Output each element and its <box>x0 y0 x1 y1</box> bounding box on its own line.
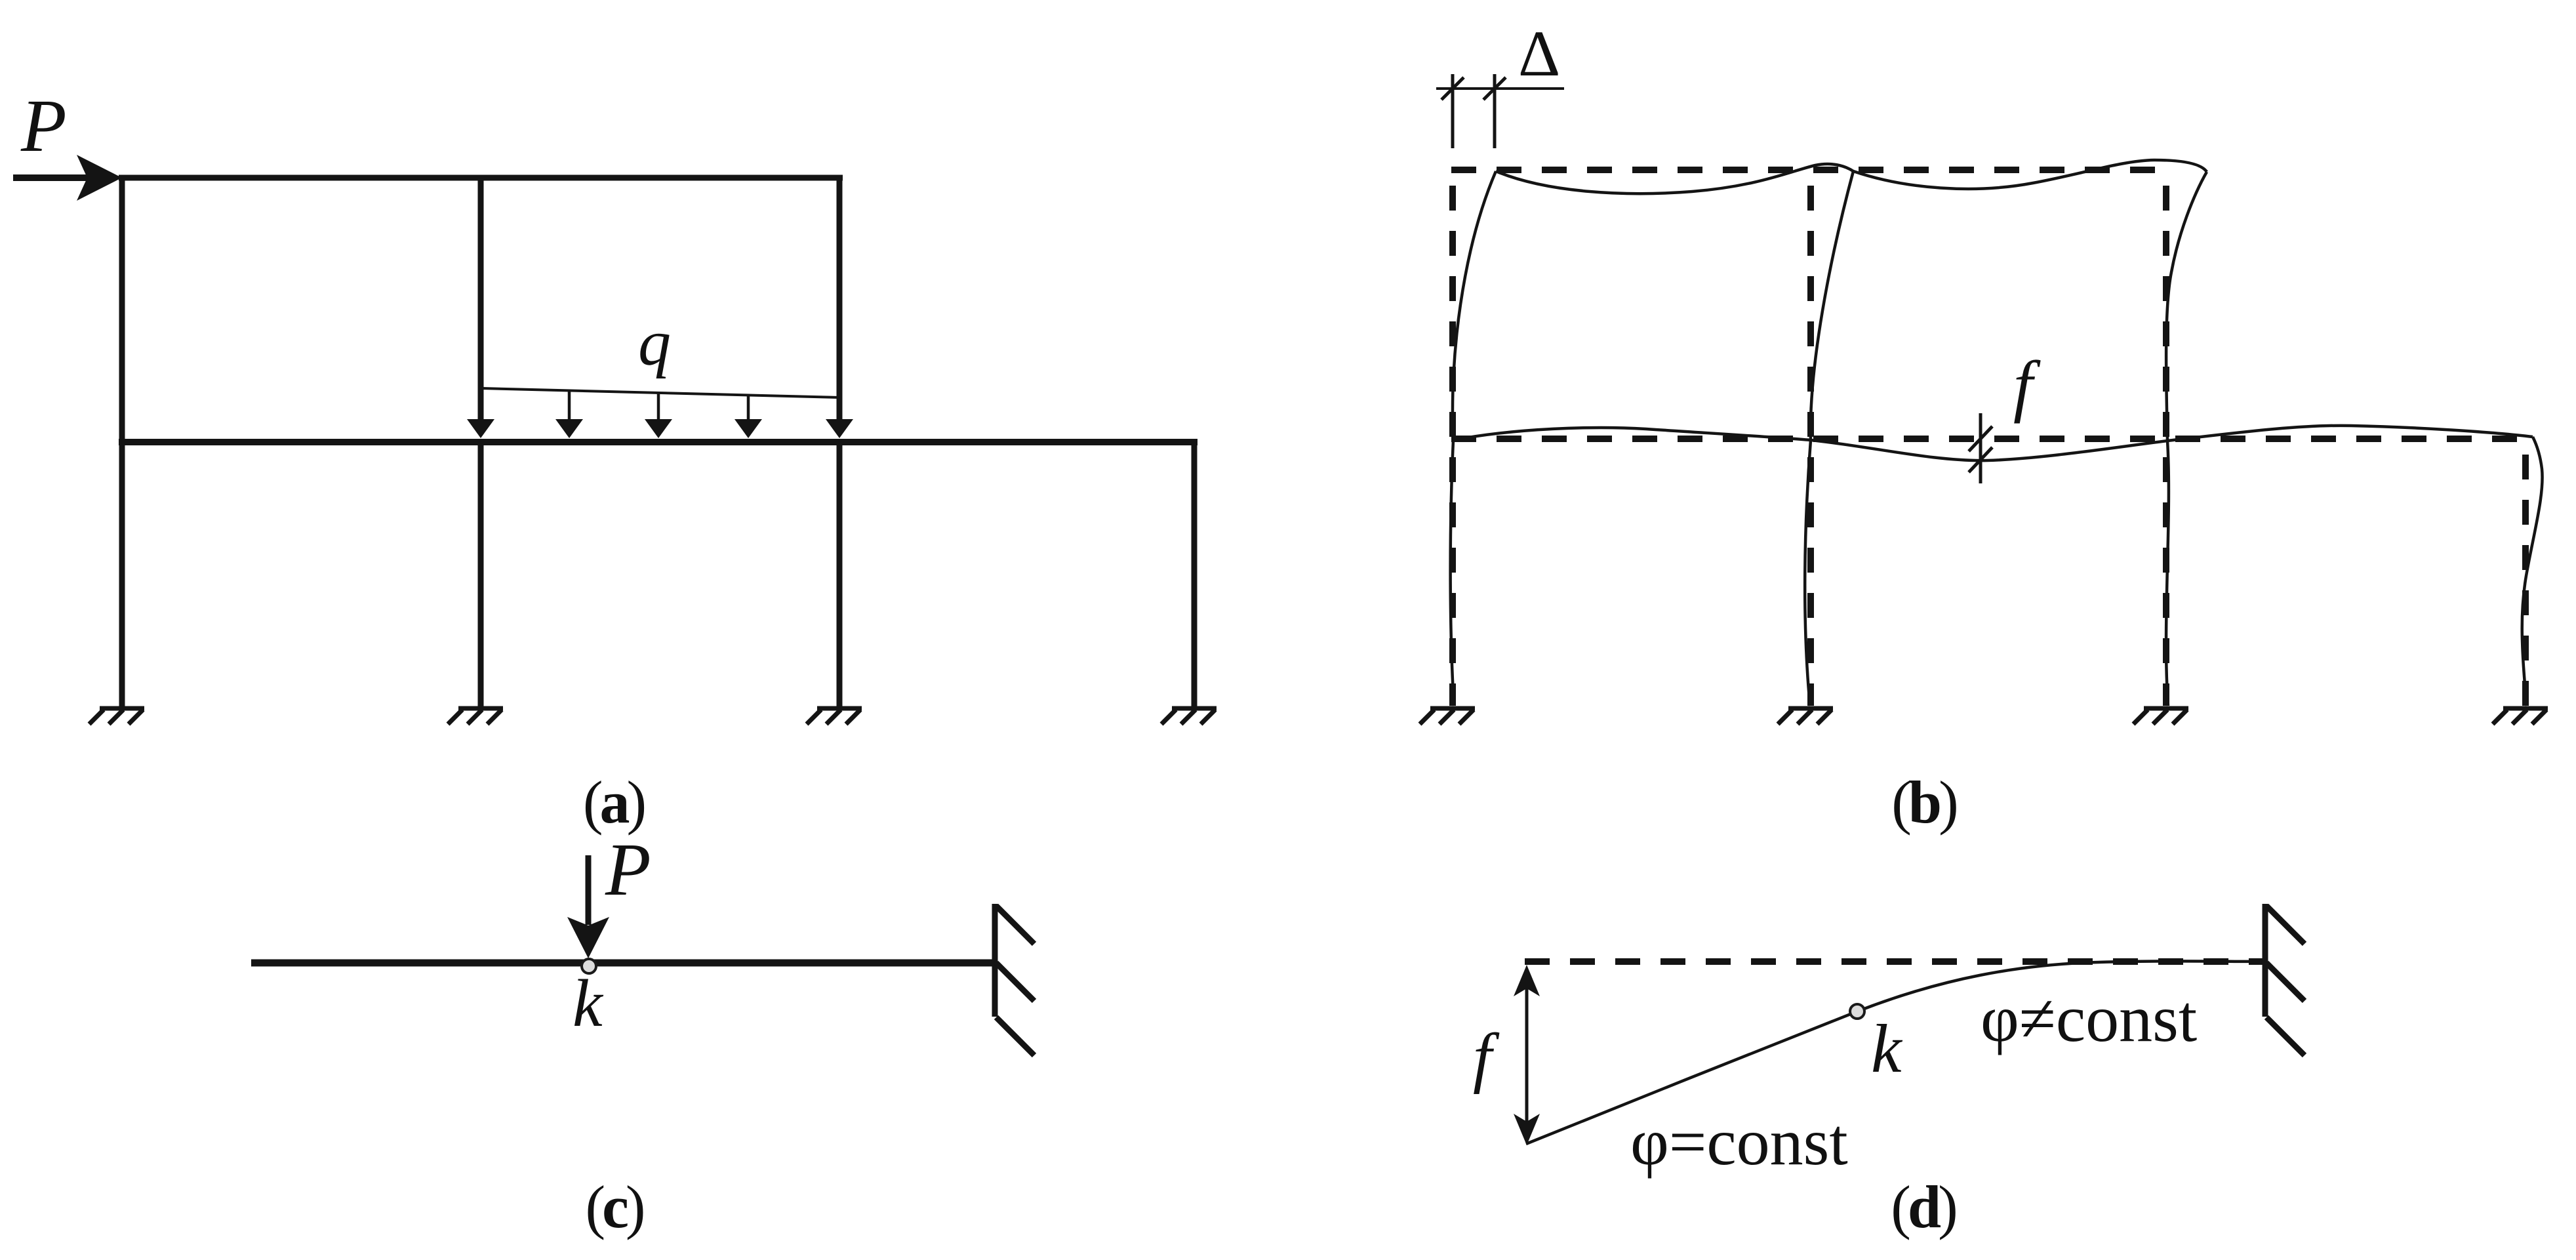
q arrowhead 2 <box>555 419 583 438</box>
svg-text:(d): (d) <box>1891 1173 1956 1240</box>
deformed column 4 (b) <box>2522 437 2543 706</box>
fixed support 4 (b) <box>2493 708 2548 724</box>
q arrowhead 5 <box>826 419 853 438</box>
svg-text:P: P <box>20 84 67 167</box>
f tick 2 (b) <box>1969 447 1992 472</box>
upper column middle (a) <box>478 175 484 433</box>
beam (c) <box>251 960 995 967</box>
hinge point k (d) <box>1850 1004 1864 1019</box>
q arrow stem 2 <box>568 390 571 421</box>
fixed support 2 (a) <box>448 708 503 724</box>
load arrow P head (c) <box>567 917 609 958</box>
lower column 4 (a) <box>1192 439 1197 707</box>
dashed column 2 (b) <box>1807 186 1814 706</box>
fixed support 4 (a) <box>1161 708 1217 724</box>
dashed column 3 (b) <box>2163 186 2169 706</box>
fixed support 1 (b) <box>1420 708 1475 724</box>
dashed column 1 (b) <box>1449 186 1456 706</box>
svg-text:k: k <box>1871 1010 1903 1087</box>
q arrow stem 4 <box>747 395 750 421</box>
q arrowhead 1 <box>467 419 494 438</box>
fixed support 3 (a) <box>807 708 862 724</box>
deformed column 3 (b) <box>2166 172 2207 706</box>
dashed second floor beam (b) <box>1451 436 2526 442</box>
delta dimension extension line 1 <box>1451 74 1455 148</box>
delta dimension extension line 2 <box>1493 74 1497 148</box>
q arrowhead 4 <box>735 419 762 438</box>
q arrowhead 3 <box>645 419 672 438</box>
deformed beam curve (d) <box>1526 961 2265 1144</box>
svg-text:φ≠const: φ≠const <box>1981 982 2197 1056</box>
wall support (c) <box>995 904 1034 1055</box>
upper column left (a) <box>119 175 125 445</box>
second floor beam (a) <box>119 439 1197 445</box>
deformed top beam (b) <box>1496 160 2207 193</box>
lower column 3 (a) <box>837 439 843 707</box>
svg-text:q: q <box>638 306 671 379</box>
svg-text:P: P <box>605 828 651 911</box>
lower column 2 (a) <box>478 439 484 707</box>
fixed support 1 (a) <box>89 708 144 724</box>
load arrow P stem (c) <box>586 855 592 925</box>
delta tick 1 <box>1441 77 1464 100</box>
wall support (d) <box>2265 904 2304 1055</box>
q arrow stem 3 <box>657 393 660 421</box>
fixed support 3 (b) <box>2133 708 2188 724</box>
deformed column 1 (b) <box>1451 171 1496 706</box>
lower column 1 (a) <box>119 439 125 707</box>
dashed column 4 (b) <box>2522 455 2529 706</box>
distributed load line q <box>482 388 841 397</box>
f dimension line (b) <box>1979 413 1982 483</box>
upper column right (a) <box>837 175 843 433</box>
hinge point k (c) <box>582 959 596 973</box>
fixed support 2 (b) <box>1778 708 1833 724</box>
top beam (a) <box>119 175 843 181</box>
svg-text:(a): (a) <box>583 769 645 836</box>
svg-text:k: k <box>573 966 604 1041</box>
load arrow P head (a) <box>77 155 122 201</box>
svg-text:φ=const: φ=const <box>1630 1105 1848 1179</box>
load arrow P stem (a) <box>13 174 89 181</box>
svg-text:(b): (b) <box>1891 769 1956 836</box>
dashed reference line (d) <box>1525 958 2265 965</box>
delta tick 2 <box>1483 77 1506 100</box>
deformed column 2 (b) <box>1805 171 1853 706</box>
deformed second floor beam (b) <box>1453 426 2533 460</box>
dashed top beam (b) <box>1451 167 2166 173</box>
delta dimension line <box>1436 87 1564 90</box>
svg-text:(c): (c) <box>585 1173 643 1240</box>
f tick 1 (b) <box>1969 426 1992 451</box>
f dimension arrow stem (d) <box>1525 971 1529 1141</box>
svg-text:Δ: Δ <box>1518 17 1560 90</box>
f arrowhead down (d) <box>1514 1114 1540 1145</box>
f arrowhead up (d) <box>1514 965 1540 996</box>
